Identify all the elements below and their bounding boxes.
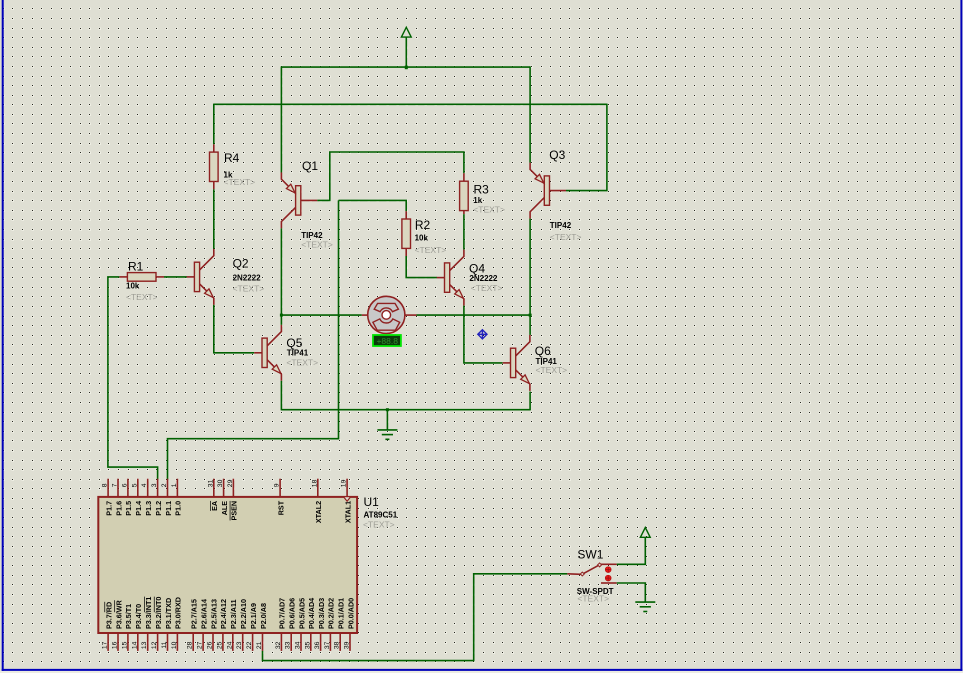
svg-text:<TEXT>: <TEXT> [363,519,395,529]
svg-text:26: 26 [207,641,214,649]
wire Q6 collector to motor node [529,315,531,335]
resistor R1 [119,276,127,278]
svg-text:36: 36 [314,641,321,649]
svg-text:P1.1: P1.1 [164,501,173,516]
svg-text:<TEXT>: <TEXT> [286,357,318,367]
svg-text:R1: R1 [128,260,144,274]
pin 38 P0.1/AD1 [339,633,341,651]
pin 17 P3.7/RD [107,633,109,651]
pin 33 P0.6/AD6 [290,633,292,651]
svg-text:P3.5/T1: P3.5/T1 [124,604,133,629]
svg-text:PSEN: PSEN [230,501,239,521]
pin 22 P2.1/A9 [252,633,254,651]
svg-text:2: 2 [161,483,168,487]
pin 39 P0.0/AD0 [349,633,351,651]
transistor Q2 [194,262,199,291]
svg-text:P0.5/AD5: P0.5/AD5 [297,598,306,629]
svg-text:P2.6/A14: P2.6/A14 [199,599,208,629]
svg-text:P3.4/T0: P3.4/T0 [134,604,143,629]
motor pin left [362,314,368,316]
svg-text:Q1: Q1 [302,159,318,173]
pin 8 P1.7 [107,479,109,497]
motor M1 [368,296,405,333]
wire SW1 lower throw to ground [617,583,646,602]
wire Q6 emitter to bottom rail [529,392,531,411]
svg-text:28: 28 [187,641,194,649]
svg-text:P2.4/A12: P2.4/A12 [219,599,228,629]
svg-text:AT89C51: AT89C51 [364,510,398,519]
svg-text:P0.7/AD7: P0.7/AD7 [278,598,287,629]
svg-text:P1.5: P1.5 [124,501,133,516]
svg-text:SW1: SW1 [577,548,603,562]
wire R4 top [213,104,215,145]
pin 6 P1.5 [127,479,129,497]
sheet border frame [2,0,4,671]
transistor Q6 [511,348,516,377]
svg-text:<TEXT>: <TEXT> [550,232,582,242]
motor pin right [405,314,417,316]
svg-text:P0.4/AD4: P0.4/AD4 [307,598,316,629]
svg-text:P0.2/AD2: P0.2/AD2 [327,598,336,629]
svg-text:P2.7/A15: P2.7/A15 [190,599,199,629]
wire top rail lower [214,103,607,105]
svg-text:EA: EA [210,501,219,511]
svg-text:29: 29 [227,479,234,487]
resistor R4 [213,144,215,152]
ground at switch [635,601,655,603]
svg-text:P2.5/A13: P2.5/A13 [209,599,218,629]
svg-text:P1.4: P1.4 [134,501,143,516]
pin 5 P1.4 [137,479,139,497]
svg-text:24: 24 [226,641,233,649]
pin 21 P2.0/A8 [262,633,264,651]
power VCC symbol top [401,27,411,37]
pin 11 P3.1/TXD [167,633,169,651]
svg-text:17: 17 [102,641,109,649]
svg-text:5: 5 [131,483,138,487]
svg-text:+88.8: +88.8 [376,336,398,346]
svg-text:<TEXT>: <TEXT> [301,239,333,249]
junction ground rail [386,408,389,411]
pin 19 clock chevron [344,497,350,501]
pin 1 P1.0 [176,479,178,497]
junction motor right node [529,314,532,317]
wire VCC stem [405,37,407,67]
svg-text:23: 23 [236,641,243,649]
transistor Q4 [445,263,450,292]
svg-text:10: 10 [171,641,178,649]
pin 2 P1.1 [167,479,169,497]
svg-text:18: 18 [311,479,318,487]
svg-text:Q2: Q2 [233,256,249,270]
svg-text:P1.3: P1.3 [144,501,153,516]
svg-text:TIP41: TIP41 [287,348,309,357]
svg-text:R4: R4 [224,151,240,165]
svg-text:3: 3 [151,483,158,487]
svg-text:P1.2: P1.2 [154,501,163,516]
wire Q3 base riser [566,104,607,191]
pin 12 P3.2/INT0 [157,633,159,651]
svg-text:13: 13 [141,641,148,649]
svg-text:<TEXT>: <TEXT> [415,245,447,255]
wire SW1 upper throw to VCC [617,537,646,564]
wire Q1 base to R3 top [317,152,464,200]
pin 26 P2.5/A13 [212,633,214,651]
wire Q2 emitter to Q5 base [214,305,254,353]
pin 14 P3.4/T0 [137,633,139,651]
wire top rail upper [281,66,530,68]
junction motor left node [280,314,283,317]
wire P1.1 net to R2 top [339,200,407,211]
svg-text:14: 14 [131,641,138,649]
power VCC symbol switch [640,528,650,538]
svg-text:30: 30 [217,479,224,487]
svg-text:<TEXT>: <TEXT> [471,283,503,293]
svg-text:RST: RST [276,500,285,515]
svg-text:P3.1/TXD: P3.1/TXD [164,598,173,629]
svg-text:P3.6/WR: P3.6/WR [114,599,123,629]
wire Q3 collector down to motor node [529,219,531,316]
pin 7 P1.6 [117,479,119,497]
svg-text:<TEXT>: <TEXT> [577,594,609,604]
transistor Q3 [544,176,549,205]
wire R1 left riser [108,277,158,480]
pin 4 P1.3 [147,479,149,497]
wire Q3 emitter drop [529,66,531,162]
svg-text:12: 12 [151,641,158,649]
origin marker blue [478,330,487,339]
wire R3 bottom to Q4 collector [463,214,465,250]
pin 13 P3.3/INT1 [147,633,149,651]
svg-text:P1.6: P1.6 [114,501,123,516]
svg-text:Q3: Q3 [549,148,565,162]
wire motor left [281,314,361,316]
pin 15 P3.5/T1 [127,633,129,651]
pin 31 EA [213,479,215,497]
resistor R3 [463,173,465,181]
svg-text:37: 37 [324,641,331,649]
svg-text:1: 1 [171,483,178,487]
SW1 contact state dot lower [605,575,611,581]
svg-text:P1.7: P1.7 [104,501,113,516]
svg-text:11: 11 [161,641,168,648]
pin 18 XTAL2 [317,479,319,497]
transistor Q1 [296,186,301,215]
wire bottom rail [281,409,530,411]
IC U1 AT89C51 body [98,497,357,633]
svg-text:P2.2/A10: P2.2/A10 [239,599,248,629]
resistor R2 [405,211,407,219]
svg-text:6: 6 [121,483,128,487]
svg-text:P3.0/RXD: P3.0/RXD [174,597,183,629]
svg-text:ALE: ALE [220,501,229,516]
pin 23 P2.2/A10 [242,633,244,651]
svg-text:39: 39 [344,641,351,649]
wire R2 bottom to Q4 base [406,256,437,278]
pin 27 P2.6/A14 [202,633,204,651]
wire Q1 collector to motor node [280,228,282,315]
svg-text:TIP42: TIP42 [550,221,572,230]
svg-text:38: 38 [334,641,341,649]
svg-text:P2.1/A9: P2.1/A9 [249,603,258,629]
svg-text:4: 4 [141,483,148,487]
svg-text:R2: R2 [415,218,431,232]
wire motor right [417,314,531,316]
svg-text:34: 34 [295,641,302,649]
svg-text:19: 19 [341,479,348,487]
svg-text:<TEXT>: <TEXT> [233,284,265,294]
svg-text:P3.3/INT1: P3.3/INT1 [144,597,153,629]
junction VCC rail [405,66,408,70]
pin 30 ALE [223,479,225,497]
pin 28 P2.7/A15 [192,633,194,651]
svg-text:P0.1/AD1: P0.1/AD1 [337,598,346,629]
svg-text:16: 16 [112,641,119,649]
wire Q1 emitter drop [280,66,282,172]
svg-text:10k: 10k [126,281,140,290]
pin 25 P2.4/A12 [222,633,224,651]
svg-text:U1: U1 [364,495,380,509]
wire Q5 emitter to bottom rail [280,381,282,411]
pin 19 XTAL1 [346,479,348,497]
svg-text:10k: 10k [415,234,429,243]
svg-text:P0.6/AD6: P0.6/AD6 [288,598,297,629]
svg-text:7: 7 [112,483,119,487]
svg-text:XTAL1: XTAL1 [343,501,352,523]
svg-text:P0.0/AD0: P0.0/AD0 [346,598,355,629]
svg-text:Q4: Q4 [469,261,485,275]
pin 24 P2.3/A11 [232,633,234,651]
svg-text:31: 31 [207,479,214,487]
svg-text:XTAL2: XTAL2 [314,501,323,523]
switch SW1 [567,573,581,576]
pin 29 PSEN [232,479,234,497]
pin 32 P0.7/AD7 [280,633,282,651]
pin 10 P3.0/RXD [176,633,178,651]
svg-text:22: 22 [246,641,253,649]
svg-text:P0.3/AD3: P0.3/AD3 [317,598,326,629]
svg-text:27: 27 [197,641,204,649]
svg-text:2N2222: 2N2222 [233,273,262,282]
svg-text:P1.0: P1.0 [174,501,183,516]
ground under motor [386,410,388,430]
pin 16 P3.6/WR [117,633,119,651]
SW1 throw lower pin [601,582,617,584]
wire P2.0 to switch [263,574,568,661]
svg-text:33: 33 [285,641,292,649]
motor rpm display [373,335,401,346]
wire R1 to Q2 base [164,276,187,278]
svg-text:21: 21 [256,641,263,649]
pin 34 P0.5/AD5 [300,633,302,651]
SW1 contact state dot upper [605,567,611,573]
svg-text:P3.2/INT0: P3.2/INT0 [154,597,163,629]
pin 37 P0.2/AD2 [329,633,331,651]
pin 9 RST [279,479,281,497]
pin 35 P0.4/AD4 [310,633,312,651]
svg-text:<TEXT>: <TEXT> [126,292,158,302]
svg-text:9: 9 [274,483,281,487]
transistor Q5 [262,338,267,367]
svg-text:35: 35 [304,641,311,649]
svg-text:P3.7/RD: P3.7/RD [104,602,113,629]
wire Q4 emitter to Q6 base [464,306,503,363]
SW1 throw upper pin [601,563,617,565]
pin 3 P1.2 [157,479,159,497]
svg-text:R3: R3 [474,183,490,197]
svg-text:<TEXT>: <TEXT> [536,365,568,375]
svg-text:8: 8 [102,483,109,487]
wire P1.1 net riser [168,200,339,479]
svg-text:15: 15 [121,641,128,649]
svg-text:P2.0/A8: P2.0/A8 [259,603,268,629]
wire Q5 collector to motor node [280,315,282,325]
pin 36 P0.3/AD3 [320,633,322,651]
wire R4 bottom to Q2 collector [213,189,215,249]
svg-text:25: 25 [216,641,223,649]
svg-text:32: 32 [275,641,282,649]
svg-text:P2.3/A11: P2.3/A11 [229,599,238,629]
svg-text:<TEXT>: <TEXT> [473,205,505,215]
svg-text:<TEXT>: <TEXT> [224,177,256,187]
